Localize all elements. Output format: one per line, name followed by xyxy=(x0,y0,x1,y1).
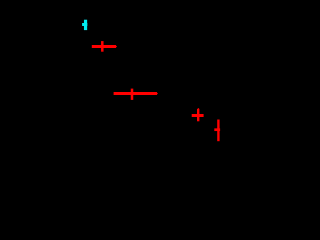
cyan horizontal error bar xyxy=(82,23,87,26)
light-curve plot area (black background) xyxy=(0,0,241,168)
red point 3 top tip nub xyxy=(197,108,199,109)
cyan data point (WT mode) error-bar cross xyxy=(82,20,87,30)
red point 1 horizontal error bar xyxy=(92,45,116,48)
cyan vertical error bar xyxy=(84,20,87,30)
red point 2 right tip nub xyxy=(156,93,159,95)
red point 2 vertical error bar xyxy=(131,89,134,100)
red point 1 vertical error bar xyxy=(101,41,104,52)
red point 3 vertical error bar xyxy=(197,109,199,121)
red point 4 horizontal error bar xyxy=(214,128,220,131)
red point 3 horizontal error bar xyxy=(192,114,204,117)
red data point 2 error-bar cross xyxy=(114,89,158,100)
red data point 3 error-bar cross xyxy=(192,108,204,121)
red data point 4 error-bar cross xyxy=(214,120,220,142)
red point 1 right tip nub xyxy=(115,46,118,48)
red point 2 horizontal error bar xyxy=(114,92,157,95)
red point 4 vertical error bar xyxy=(217,120,219,142)
red data point 1 error-bar cross xyxy=(92,41,117,52)
